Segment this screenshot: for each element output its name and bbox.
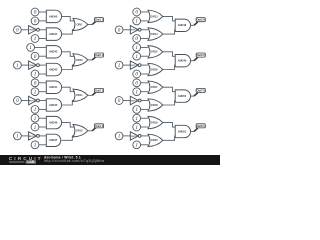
wire OR11 output to Out3 [88,94,93,96]
OR gate OR17 [148,81,163,94]
logic input node value 0 [115,26,123,34]
AND gate AND42 [46,46,61,58]
wire input to OR13 pin2 [141,20,148,22]
svg-text:LAB: LAB [27,160,35,164]
svg-text:0: 0 [135,72,138,78]
svg-text:INV10: INV10 [29,100,36,102]
inverter INV13 [130,61,141,69]
wire AND44 output to OR11 pin1 [62,87,76,92]
logic input node value 0 [133,79,141,87]
wire input to AND44 pin1 [39,82,46,84]
logic input node value 0 [31,17,39,25]
output flag Out3 value 1 [92,88,103,95]
output flag Out6 value 0 [194,53,205,61]
wire input to inverter INV13 [123,64,130,66]
AND gate AND40 [46,10,61,22]
AND gate AND47 [46,134,61,146]
wire AND48 output to Out5 [191,24,195,26]
svg-text:AND43: AND43 [49,68,58,72]
wire AND46 output to OR12 pin1 [62,123,76,128]
svg-text:OR12: OR12 [76,129,83,133]
logic input node value 1 [133,88,141,96]
wire OR13 output to AND48 pin1 [163,16,175,21]
wire input to inverter INV12 [123,29,130,31]
wire input to inverter INV15 [123,135,130,137]
logic input node value 1 [31,35,39,43]
inverter INV9 [29,61,40,69]
svg-text:0: 0 [34,10,37,16]
svg-text:AND42: AND42 [49,50,58,54]
wire input to OR15 pin1 [141,46,148,48]
wire inverter INV9 to AND43 pin1 [39,64,46,66]
wire input to AND44 pin2 [39,91,46,93]
svg-text:OR11: OR11 [76,93,83,97]
logic input node value 1 [133,106,141,114]
svg-text:1: 1 [34,72,37,78]
AND gate AND50 [175,90,190,102]
logic input node value 1 [133,141,141,149]
wire input to OR13 pin1 [141,11,148,13]
svg-text:0: 0 [34,54,37,60]
svg-text:Out7 0: Out7 0 [197,88,206,92]
svg-text:0: 0 [135,81,138,87]
inverter INV10 [29,96,40,105]
wire input to OR19 pin1 [141,117,148,119]
AND gate AND51 [175,125,190,137]
svg-text:Out4 1: Out4 1 [95,124,104,128]
wire input to AND46 pin1 [39,117,46,119]
wire input to AND46 pin2 [39,126,46,128]
svg-text:0: 0 [34,81,37,87]
svg-text:1: 1 [34,89,37,95]
svg-text:1: 1 [135,142,138,148]
svg-text:OR10: OR10 [76,58,83,62]
OR gate OR20 [148,134,163,146]
svg-text:0: 0 [135,36,138,42]
svg-text:AND48: AND48 [178,23,187,27]
wire input to OR17 pin1 [141,82,148,84]
svg-text:INV8: INV8 [30,30,36,32]
svg-text:OR13: OR13 [151,14,158,18]
AND gate AND46 [46,116,61,128]
AND gate AND41 [46,28,61,41]
wire input to AND41 pin2 [39,38,46,40]
output flag Out5 value 0 [194,18,205,26]
logic input node value 1 [115,132,123,140]
wire AND49 output to Out6 [191,60,195,62]
svg-text:AND47: AND47 [49,138,58,142]
wire OR8 output to Out1 [88,24,93,26]
logic input node value 1 [115,61,123,69]
svg-text:0: 0 [135,10,138,16]
wire AND45 output to OR11 pin2 [62,101,76,106]
svg-text:AND45: AND45 [49,103,58,107]
wire input to AND43 pin2 [39,73,46,75]
wire input to AND42 pin1 [35,46,47,48]
wire OR10 output to Out2 [88,59,93,61]
OR gate OR11 [73,89,88,101]
svg-text:Out8 1: Out8 1 [197,124,206,128]
wire input to inverter INV9 [21,64,28,66]
svg-text:OR20: OR20 [151,138,158,142]
svg-text:AND51: AND51 [178,129,187,133]
svg-text:1: 1 [118,134,121,140]
svg-text:AND49: AND49 [178,59,187,63]
svg-text:INV14: INV14 [131,99,138,102]
svg-text:AND40: AND40 [49,14,58,18]
svg-text:1: 1 [34,36,37,42]
svg-text:1: 1 [135,116,138,122]
wire input to OR19 pin2 [141,126,148,128]
svg-text:OR17: OR17 [151,85,158,89]
OR gate OR15 [148,46,163,58]
svg-text:Out3 1: Out3 1 [95,88,104,92]
logic input node value 1 [31,88,39,96]
wire input to inverter INV14 [123,100,130,102]
svg-text:INV11: INV11 [29,136,36,138]
wire AND43 output to OR10 pin2 [62,65,76,69]
AND gate AND44 [46,81,61,94]
svg-text:1: 1 [135,19,138,25]
logic input node value 0 [133,70,141,78]
wire input to inverter INV11 [21,135,28,137]
wire OR14 output to AND48 pin2 [163,30,175,34]
OR gate OR14 [148,28,163,41]
svg-text:0: 0 [34,19,37,25]
output flag Out1 value 1 [92,18,103,25]
svg-text:INV9: INV9 [30,65,36,67]
output flag Out4 value 1 [92,124,103,131]
svg-text:INV15: INV15 [131,136,138,138]
svg-text:AND46: AND46 [49,121,58,125]
wire AND51 output to Out8 [191,131,195,133]
logic input node value 1 [31,123,39,131]
wire input to AND45 pin2 [39,108,46,110]
svg-text:0: 0 [118,98,121,104]
svg-text:1: 1 [16,63,19,69]
wire OR20 output to AND51 pin2 [163,136,175,140]
svg-text:OR8: OR8 [77,22,83,26]
svg-text:1: 1 [34,125,37,131]
wire AND47 output to OR12 pin2 [62,136,76,140]
wire OR17 output to AND50 pin1 [163,87,175,92]
svg-text:Out1 1: Out1 1 [95,18,104,22]
logic input node value 1 [31,70,39,78]
logic input node value 1 [133,44,141,52]
OR gate OR18 [148,99,163,111]
svg-text:1: 1 [118,63,121,69]
logic input node value 0 [14,97,22,105]
wire inverter INV12 to OR14 pin1 [141,29,148,31]
wire inverter INV13 to OR16 pin1 [141,64,148,66]
svg-text:1: 1 [135,45,138,51]
logic input node value 0 [133,8,141,16]
inverter INV15 [130,132,141,140]
inverter INV8 [29,26,40,34]
OR gate OR16 [148,63,163,76]
svg-text:1: 1 [135,125,138,131]
svg-text:Out6 0: Out6 0 [197,53,206,57]
wire OR19 output to AND51 pin1 [163,123,175,128]
wire input to OR18 pin2 [141,108,148,110]
svg-text:http://circuitlab.com/c/7q2tj2: http://circuitlab.com/c/7q2tj2j8bfw [44,159,105,163]
output flag Out2 value 1 [92,53,103,60]
AND gate AND48 [175,19,190,31]
logic input node value 1 [133,52,141,60]
svg-text:1: 1 [34,142,37,148]
OR gate OR19 [148,116,163,128]
svg-text:0: 0 [16,98,19,104]
svg-text:OR14: OR14 [151,32,158,36]
logic input node value 0 [14,26,22,34]
logic input node value 1 [133,114,141,122]
wire inverter INV14 to OR18 pin1 [141,100,148,102]
wire input to AND42 pin2 [39,55,46,57]
wire OR18 output to AND50 pin2 [163,101,175,106]
svg-text:OR19: OR19 [151,121,158,125]
AND gate AND43 [46,63,61,76]
logic input node value 0 [31,8,39,16]
inverter INV11 [29,132,40,140]
wire input to OR17 pin2 [141,91,148,93]
wire input to OR14 pin2 [141,38,148,40]
logic input node value 1 [14,132,22,140]
wire AND40 output to OR8 pin1 [62,16,76,21]
svg-text:INV13: INV13 [131,65,138,67]
logic input node value 0 [133,35,141,43]
wire input to AND40 pin2 [39,20,46,22]
output flag Out7 value 0 [194,88,205,96]
inverter INV12 [130,26,141,34]
wire input to OR15 pin2 [141,55,148,57]
logic input node value 1 [133,17,141,25]
OR gate OR12 [73,125,88,137]
wire input to OR16 pin2 [141,73,148,75]
svg-text:OR18: OR18 [151,103,158,107]
wire input to AND40 pin1 [39,11,46,13]
svg-text:1: 1 [135,107,138,113]
svg-text:0: 0 [118,27,121,33]
logic input node value 1 [31,106,39,114]
logic input node value 0 [31,52,39,60]
svg-text:1: 1 [16,134,19,140]
logic input node value 1 [14,61,22,69]
CircuitLab logo [9,156,43,164]
OR gate OR13 [148,10,163,22]
wire input to inverter INV8 [21,29,28,31]
watermark bar [0,155,220,165]
wire OR16 output to AND49 pin2 [163,65,175,69]
AND gate AND49 [175,55,190,67]
inverter INV14 [130,96,141,105]
wire AND42 output to OR10 pin1 [62,52,76,57]
OR gate OR10 [73,54,88,66]
svg-text:1: 1 [34,107,37,113]
logic input node value 1 [133,123,141,131]
logic input node value 1 [31,141,39,149]
wire input to AND47 pin2 [39,144,46,146]
logic input node value 0 [31,79,39,87]
svg-text:1: 1 [135,54,138,60]
svg-text:1: 1 [34,116,37,122]
logic input node value 0 [115,97,123,105]
wire AND50 output to Out7 [191,95,195,97]
wire inverter INV11 to AND47 pin1 [39,135,46,137]
svg-text:AND50: AND50 [178,94,187,98]
svg-text:0: 0 [16,27,19,33]
wire OR12 output to Out4 [88,130,93,132]
svg-text:Out5 0: Out5 0 [197,18,206,22]
wire input to inverter INV10 [21,100,28,102]
logic input node value 1 [31,114,39,122]
svg-text:OR15: OR15 [151,50,158,54]
logic input node value 1 [27,44,35,52]
wire AND41 output to OR8 pin2 [62,30,76,34]
wire inverter INV10 to AND45 pin1 [39,100,46,102]
svg-text:AND44: AND44 [49,85,58,89]
wire input to OR20 pin2 [141,144,148,146]
svg-text:1: 1 [135,89,138,95]
svg-text:Out2 1: Out2 1 [95,53,104,57]
wire inverter INV8 to AND41 pin1 [39,29,46,31]
svg-text:AND41: AND41 [49,32,58,36]
svg-text:1: 1 [29,45,32,51]
AND gate AND45 [46,99,61,111]
wire OR15 output to AND49 pin1 [163,52,175,57]
svg-text:OR16: OR16 [151,68,158,72]
OR gate OR8 [73,18,88,30]
svg-text:INV12: INV12 [131,30,138,32]
output flag Out8 value 1 [194,124,205,132]
wire inverter INV15 to OR20 pin1 [141,135,148,137]
